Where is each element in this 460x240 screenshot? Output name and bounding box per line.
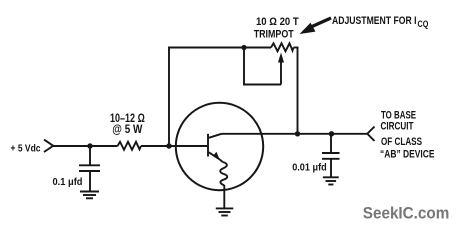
trimpot wiper arrow: [280, 60, 282, 85]
svg-text:10–12 Ω: 10–12 Ω: [110, 113, 145, 125]
wire top rail: [168, 47, 271, 49]
svg-text:+ 5 Vdc: + 5 Vdc: [11, 144, 41, 155]
wire trimpot right end: [294, 47, 299, 49]
trimpot R2 10 ohm 20T zigzag: [271, 43, 294, 51]
terminal output arrow: [367, 127, 374, 142]
wire C2 to ground: [330, 159, 332, 177]
capacitor C2 top lead: [330, 134, 332, 153]
resistor R3 emitter zigzag: [220, 162, 227, 185]
svg-text:0.1 μfd: 0.1 μfd: [53, 177, 83, 188]
svg-text:@ 5 W: @ 5 W: [112, 124, 142, 136]
capacitor C1 top lead: [89, 146, 91, 165]
wire C1 node to R1: [90, 145, 118, 147]
wire collector rail to trimpot node: [222, 133, 298, 135]
capacitor C1 0.1 ufd plates: [79, 164, 100, 166]
svg-text:ADJUSTMENT FOR I: ADJUSTMENT FOR I: [332, 15, 417, 27]
ground for emitter: [216, 208, 234, 215]
junction trimpot left node: [241, 45, 246, 50]
wire collector rail to C2 node: [298, 133, 332, 135]
resistor R1 10-12 ohm zigzag: [118, 142, 142, 150]
wire node A into base: [169, 145, 207, 147]
ground for C1: [80, 192, 99, 199]
wire input to C1 node: [53, 145, 91, 147]
wire R1 to node A: [141, 145, 169, 147]
svg-text:0.01 μfd: 0.01 μfd: [292, 162, 327, 173]
svg-text:TRIMPOT: TRIMPOT: [254, 29, 294, 41]
wire node A up to top rail: [168, 47, 170, 146]
terminal input arrow +5 Vdc: [44, 140, 53, 152]
annotation arrow to trimpot: [312, 18, 331, 27]
emitter short link: [220, 159, 223, 162]
svg-text:SeekIC.com: SeekIC.com: [363, 204, 450, 222]
svg-text:10 Ω 20 T: 10 Ω 20 T: [256, 16, 299, 28]
junction trimpot bottom node: [295, 131, 300, 136]
wire C2 node to output: [332, 133, 368, 135]
transistor Q1 base bar: [207, 134, 209, 157]
svg-text:“AB” DEVICE: “AB” DEVICE: [380, 149, 435, 161]
ground for C2: [323, 177, 339, 184]
junction node A: [166, 143, 171, 148]
svg-text:CQ: CQ: [418, 19, 429, 29]
wire C1 to ground: [89, 171, 91, 191]
junction C1 node: [87, 143, 92, 148]
capacitor C2 0.01 ufd plates: [322, 152, 340, 154]
transistor Q1 emitter lead with arrow: [209, 152, 220, 159]
svg-text:CIRCUIT: CIRCUIT: [381, 120, 414, 132]
wire emitter resistor to ground: [223, 185, 225, 208]
transistor Q1 collector lead: [209, 134, 222, 138]
svg-text:OF CLASS: OF CLASS: [381, 136, 422, 148]
wire right vertical trimpot to collector rail: [297, 48, 299, 135]
wire wiper loop down: [243, 48, 245, 86]
wire wiper loop horizontal: [243, 84, 281, 86]
transistor Q1 envelope circle: [176, 103, 263, 190]
junction C2 node: [329, 131, 334, 136]
